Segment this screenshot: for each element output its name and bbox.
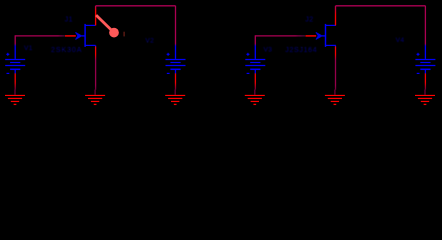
ground G2 [85, 90, 105, 105]
wire V4 top lead [0, 0, 1, 1]
svg-text:V3: V3 [264, 46, 273, 53]
wire top rail right circuit [336, 5, 426, 7]
battery V4 [415, 53, 435, 74]
wire V3 to ground [0, 0, 1, 1]
wire top rail (V2+ to switch) [96, 5, 176, 7]
switch SW1 open post stub [123, 32, 124, 37]
svg-text:V2: V2 [145, 37, 154, 44]
switch SW1 (open) [96, 15, 119, 37]
wire V2 to ground [0, 0, 1, 1]
svg-text:J2SJ164: J2SJ164 [285, 47, 317, 54]
transistor J1 (JFET) [65, 24, 96, 47]
battery V3 [245, 53, 265, 74]
svg-text:2SK30A: 2SK30A [51, 47, 82, 54]
wire V4 to ground [0, 0, 1, 1]
ground G1 [5, 90, 25, 105]
wire V1 to ground [0, 0, 1, 1]
wire V1 gate feed horizontal [0, 0, 1, 1]
ground G5 [325, 90, 345, 105]
wire V2 top lead [0, 0, 1, 1]
battery V1 [5, 53, 25, 74]
svg-text:V4: V4 [396, 37, 405, 44]
wire source to ground [0, 0, 1, 1]
battery V2 [166, 53, 186, 74]
wire V3 top lead [0, 0, 1, 1]
ground G3 [165, 90, 185, 105]
svg-text:J1: J1 [65, 17, 73, 24]
transistor J2 (JFET) [305, 24, 336, 47]
wire V1 top lead [0, 0, 1, 1]
ground G6 [415, 90, 435, 105]
wire drain to top rail (vertical) [0, 0, 1, 1]
wire source to ground [0, 0, 1, 1]
wire drain to switch (vertical) [0, 0, 1, 1]
svg-text:V1: V1 [24, 45, 33, 52]
svg-text:J2: J2 [305, 17, 313, 24]
ground G4 [245, 90, 265, 105]
wire V3 gate feed horizontal [0, 0, 1, 1]
